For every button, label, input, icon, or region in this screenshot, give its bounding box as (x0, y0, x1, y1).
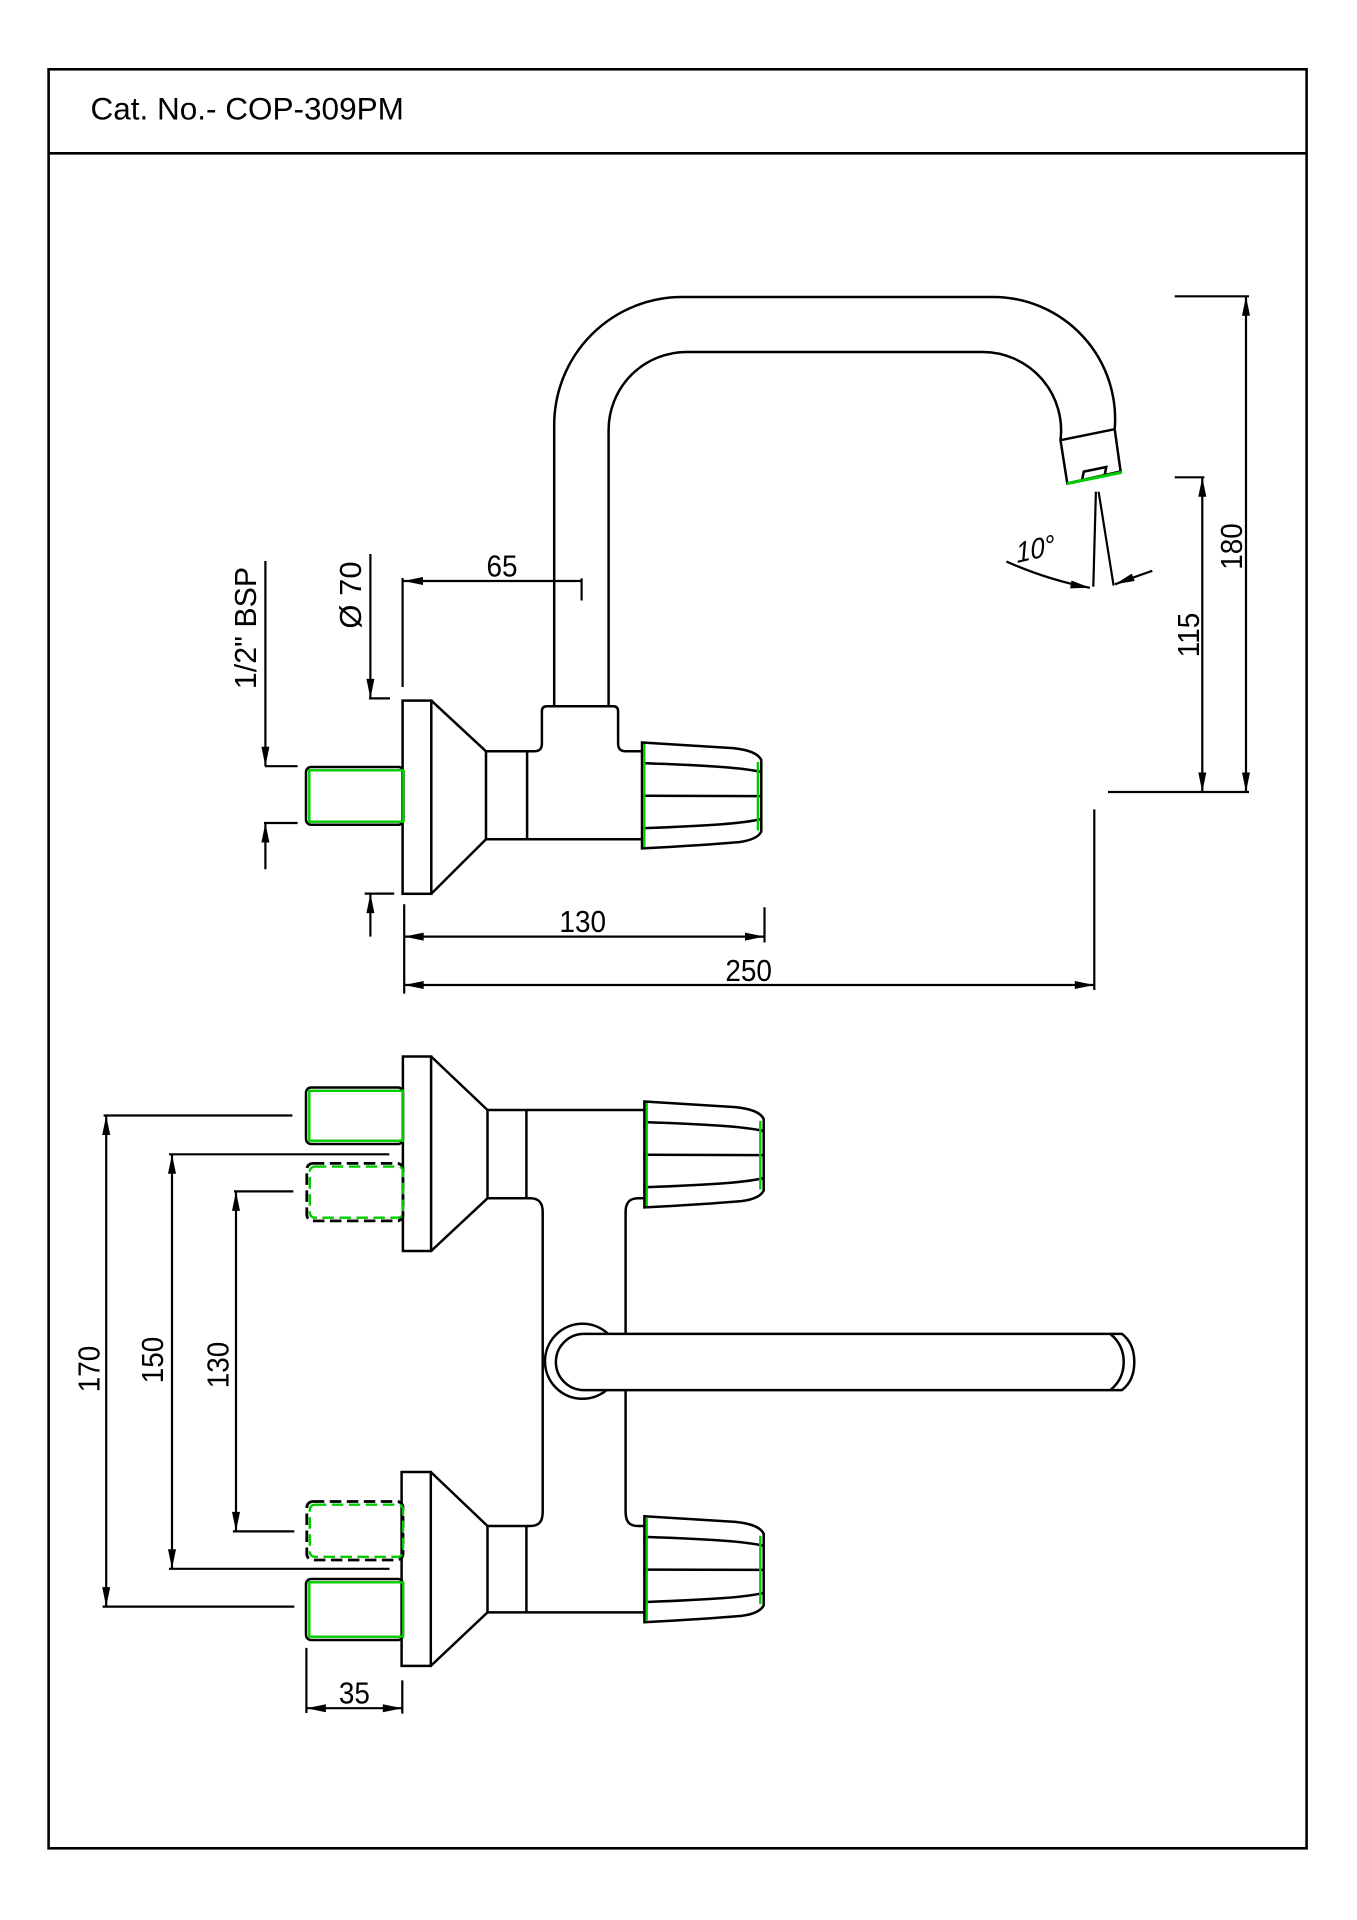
aerator notch (1082, 467, 1106, 480)
plan view lower: threaded inlet (306, 1579, 403, 1640)
plan view upper: flange cone (431, 1057, 487, 1252)
svg-text:35: 35 (339, 1676, 370, 1711)
svg-text:250: 250 (725, 954, 772, 989)
svg-text:130: 130 (559, 905, 606, 940)
dimension 250 (404, 809, 1094, 990)
plan view lower: hidden thread (black dashed) (307, 1502, 403, 1561)
flange cone (side view) (431, 701, 486, 894)
plan view: trunk left line (541, 1212, 544, 1512)
dimension 180 (1175, 296, 1250, 792)
plan view lower: hidden thread (green dashed) (310, 1505, 403, 1557)
plan view upper: body outline (488, 1110, 646, 1212)
plan view upper: neck lines (488, 1110, 527, 1198)
plan view upper: knob (644, 1102, 763, 1208)
svg-text:170: 170 (72, 1346, 107, 1393)
angle 10 deg arc right (1114, 571, 1153, 588)
svg-text:130: 130 (201, 1342, 236, 1389)
plan view lower: flange cone (431, 1472, 488, 1666)
title separator line (49, 152, 1307, 155)
svg-text:1/2" BSP: 1/2" BSP (228, 567, 263, 689)
svg-text:Cat. No.- COP-309PM: Cat. No.- COP-309PM (91, 91, 404, 127)
plan view lower: inlet green inset (309, 1582, 403, 1636)
threaded inlet green inset (side view) (309, 770, 403, 821)
plan view upper: hidden thread (green dashed) (310, 1167, 403, 1218)
angle 10 deg V lines (1093, 492, 1113, 587)
threaded inlet (side view) (306, 767, 404, 825)
dimension 65 (403, 549, 582, 687)
svg-text:180: 180 (1215, 523, 1250, 570)
dimension 150 (136, 1154, 390, 1569)
dimension 130 (side view) (404, 904, 764, 993)
svg-text:65: 65 (486, 549, 517, 584)
angle 10 deg arc left (1006, 562, 1090, 592)
svg-text:115: 115 (1172, 613, 1207, 657)
wall flange plate (side view) (403, 701, 432, 894)
dimension 170 (72, 1116, 294, 1607)
plan view lower: flange plate (402, 1472, 431, 1666)
plan view upper: hidden thread (black dashed) (307, 1163, 403, 1221)
plan view lower: knob (644, 1516, 763, 1622)
knob (side view) (642, 743, 761, 849)
outlet level line (1108, 791, 1249, 793)
svg-text:150: 150 (136, 1337, 171, 1384)
plan view: spout tube end inner arc (1111, 1335, 1124, 1390)
plan view upper: inlet green inset (309, 1091, 403, 1141)
plan view upper: threaded inlet (306, 1088, 403, 1145)
dimension 115 (1172, 477, 1207, 792)
dimension D70 (333, 554, 394, 937)
dimension 35 (306, 1648, 402, 1714)
aerator face (green) (1067, 472, 1122, 483)
plan view lower: neck lines (488, 1526, 527, 1612)
plan view: trunk right line (624, 1212, 627, 1512)
neck lines (side view) (486, 751, 527, 839)
spout nozzle joint line (1061, 429, 1115, 440)
plan view upper: flange plate (403, 1057, 431, 1252)
dimension 1/2 BSP (228, 561, 298, 869)
plan view: spout tube (556, 1334, 1134, 1390)
plan view lower: body outline (488, 1512, 646, 1612)
dimension 130 (plan view) (201, 1191, 294, 1531)
svg-text:Ø 70: Ø 70 (333, 561, 368, 628)
spout outline (side view) (554, 297, 1120, 707)
plan view: swivel pivot circle (545, 1324, 620, 1399)
body outline (side view) (486, 706, 642, 839)
